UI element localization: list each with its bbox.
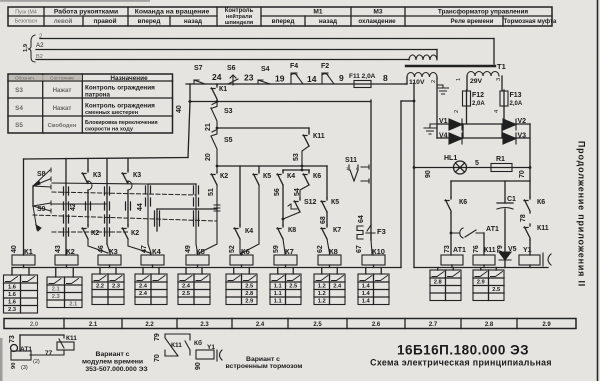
svg-text:90: 90 — [195, 362, 202, 370]
svg-text:2.1: 2.1 — [89, 322, 98, 328]
svg-text:встроенным тормозом: встроенным тормозом — [226, 363, 303, 370]
svg-text:16Б16П.180.000 ЭЗ: 16Б16П.180.000 ЭЗ — [397, 343, 529, 358]
svg-text:2.2: 2.2 — [96, 284, 104, 290]
svg-text:9: 9 — [339, 73, 344, 83]
svg-text:2.1: 2.1 — [69, 302, 78, 308]
svg-text:353-507.000.000 ЭЗ: 353-507.000.000 ЭЗ — [85, 366, 147, 373]
clutch armature symbol — [543, 253, 551, 266]
svg-text:2.5: 2.5 — [289, 284, 298, 290]
svg-text:42: 42 — [70, 203, 77, 211]
relay coil K8 — [318, 255, 341, 265]
svg-text:2.8: 2.8 — [485, 322, 494, 328]
svg-text:90: 90 — [425, 170, 432, 178]
coil K10 bottom pin — [373, 265, 375, 268]
svg-text:Безопасн: Безопасн — [15, 19, 38, 25]
svg-text:К11: К11 — [171, 342, 182, 349]
svg-text:1.6: 1.6 — [8, 300, 17, 306]
wire bridge right vertical — [529, 124, 531, 181]
svg-text:Обознач.: Обознач. — [15, 76, 35, 82]
wire to Y1 — [529, 240, 531, 255]
svg-text:19: 19 — [275, 74, 285, 84]
svg-text:21: 21 — [205, 123, 212, 131]
svg-text:70: 70 — [519, 170, 526, 178]
svg-text:46: 46 — [98, 245, 105, 253]
svg-text:HL1: HL1 — [444, 155, 457, 162]
contact K5 (b) — [326, 166, 328, 198]
S1 cam block: vertical to K4 coil — [148, 184, 151, 255]
coil K8 bottom pin — [329, 265, 331, 268]
wire S8 throw row (solid, hopped) — [52, 183, 148, 184]
svg-text:К3: К3 — [93, 172, 101, 179]
svg-text:(3): (3) — [21, 365, 28, 371]
svg-text:S3: S3 — [224, 108, 233, 115]
svg-text:F11 2,0А: F11 2,0А — [349, 73, 376, 80]
svg-text:5: 5 — [475, 160, 479, 167]
svg-text:назад: назад — [184, 18, 202, 25]
svg-text:73: 73 — [444, 245, 451, 253]
svg-text:90: 90 — [11, 363, 17, 369]
svg-text:2.5: 2.5 — [182, 291, 191, 297]
wire 29V right pin — [501, 76, 503, 90]
wire 53 split — [283, 169, 309, 171]
contact K6 (variant2) — [185, 334, 190, 355]
contact cross-reference table K3 — [92, 274, 124, 305]
svg-text:Контроль ограждения: Контроль ограждения — [85, 85, 155, 92]
table K7 pins — [277, 268, 279, 275]
svg-text:S4: S4 — [15, 105, 23, 112]
svg-text:2.3: 2.3 — [8, 307, 17, 313]
svg-text:V4: V4 — [439, 133, 448, 140]
svg-text:70: 70 — [154, 354, 161, 362]
svg-text:79: 79 — [497, 245, 504, 253]
svg-text:C1: C1 — [507, 196, 516, 203]
svg-text:67: 67 — [356, 245, 363, 253]
svg-text:Кб: Кб — [194, 339, 202, 347]
svg-text:вперед: вперед — [138, 18, 161, 25]
svg-text:М3: М3 — [373, 9, 382, 16]
coil K6 top pin wire — [240, 253, 243, 255]
svg-text:V1: V1 — [439, 118, 448, 125]
table K6 pins — [233, 268, 235, 275]
table K4 pins — [142, 268, 144, 275]
contact cross-reference table AT1 — [430, 270, 461, 301]
wire S11 branch vertical — [370, 100, 372, 240]
wire rail 40 — [189, 101, 371, 103]
svg-text:К11: К11 — [484, 247, 496, 254]
svg-text:К8: К8 — [329, 247, 338, 256]
svg-text:К11: К11 — [66, 335, 77, 342]
svg-text:К2: К2 — [91, 230, 99, 237]
rectifier left vertical node 90 — [413, 83, 415, 268]
table K1 pins — [11, 268, 13, 276]
svg-text:2.9: 2.9 — [477, 280, 486, 286]
table K3 pins — [99, 268, 101, 275]
svg-text:2.4: 2.4 — [256, 322, 265, 328]
contact cross-reference table K5 — [178, 274, 210, 305]
relay coil K10 — [362, 255, 385, 265]
right border line — [597, 0, 599, 381]
svg-text:S12: S12 — [304, 199, 317, 206]
svg-text:2.6: 2.6 — [372, 322, 381, 328]
svg-text:1,9: 1,9 — [23, 43, 29, 52]
wire grid vertical 66 — [65, 159, 67, 256]
capacitor C1 — [497, 202, 513, 204]
coil K7 bottom pin — [285, 265, 287, 268]
svg-text:2.5: 2.5 — [313, 322, 322, 328]
svg-text:F12: F12 — [472, 92, 484, 99]
svg-text:1: 1 — [456, 78, 462, 81]
wire bridge top — [437, 123, 530, 125]
wire left vertical to K1 coil — [23, 159, 25, 255]
svg-text:40: 40 — [11, 245, 18, 253]
svg-text:К2: К2 — [66, 247, 75, 256]
wire node 53 — [302, 146, 309, 170]
svg-text:2.4: 2.4 — [139, 291, 148, 297]
wire rail to 110V winding — [405, 83, 407, 85]
wire 29V left pin — [466, 76, 468, 90]
contact K2 (c) main — [211, 171, 217, 185]
wire K8 to K7 coil — [283, 239, 285, 255]
wire grid vertical 107 — [106, 159, 108, 245]
svg-text:2.4: 2.4 — [139, 284, 148, 290]
contact K3 (b) — [127, 159, 129, 171]
svg-text:К6: К6 — [537, 199, 545, 206]
svg-text:56: 56 — [274, 188, 281, 196]
svg-text:3: 3 — [496, 78, 502, 81]
relay coil K1 — [12, 255, 35, 265]
relay coil K4 — [141, 255, 164, 265]
coil K10 top pin wire — [373, 254, 375, 256]
svg-text:78: 78 — [520, 214, 527, 222]
contact cross-reference table K6 — [226, 274, 257, 305]
svg-text:V3: V3 — [518, 133, 527, 140]
contact cross-reference table K10 — [358, 274, 389, 305]
relay coil K7 — [274, 255, 297, 265]
relay coil K6 — [230, 255, 253, 265]
svg-text:К5: К5 — [196, 247, 205, 256]
svg-text:К4: К4 — [245, 228, 253, 235]
svg-text:47: 47 — [141, 245, 148, 253]
coil K2 top pin — [65, 254, 68, 256]
wire K4b to K6 coil — [240, 239, 241, 255]
svg-text:Трансформатор управления: Трансформатор управления — [438, 9, 529, 16]
contact K11 (variant2) — [165, 334, 190, 356]
wire variant1 bottom — [30, 350, 64, 355]
svg-text:Блокировка переключения: Блокировка переключения — [85, 120, 158, 126]
wire variant1 top — [20, 334, 64, 336]
ground at bridge left — [424, 124, 437, 134]
fuse F11 — [354, 81, 371, 88]
svg-text:77: 77 — [45, 350, 53, 357]
contact K11 (variant1) — [59, 335, 64, 348]
S1 cam block: line A — [148, 183, 196, 185]
coil Y1 bottom pin — [529, 265, 531, 268]
svg-text:К5: К5 — [263, 173, 271, 180]
svg-text:Тормозная муфта: Тормозная муфта — [504, 18, 557, 25]
breaker F2 — [322, 73, 334, 84]
svg-text:V5: V5 — [508, 246, 517, 253]
wire node 21 line — [217, 127, 309, 129]
table K5 pins — [185, 268, 187, 275]
svg-text:8: 8 — [383, 73, 388, 83]
contact cross-reference table K2 — [47, 277, 82, 308]
svg-text:51: 51 — [208, 188, 215, 196]
wire node 20 line — [217, 165, 327, 167]
svg-text:патрона: патрона — [85, 92, 111, 99]
resistor R1 — [491, 164, 512, 172]
svg-text:К1: К1 — [24, 247, 33, 256]
svg-text:2.7: 2.7 — [429, 322, 438, 328]
svg-text:V2: V2 — [518, 118, 527, 125]
svg-text:К7: К7 — [333, 227, 341, 234]
S1 cam block: vertical x157 — [156, 209, 158, 231]
svg-text:F13: F13 — [510, 92, 522, 99]
contact K3 (a) — [87, 159, 89, 171]
svg-text:Схема электрическая принципи: Схема электрическая принципиальная — [370, 358, 552, 368]
svg-text:2.2: 2.2 — [145, 322, 154, 328]
svg-text:T1: T1 — [497, 62, 506, 71]
ground under 110V winding — [437, 85, 449, 94]
coil K5 bottom pin — [197, 265, 199, 268]
svg-text:2.8: 2.8 — [245, 291, 254, 297]
svg-text:S3: S3 — [15, 87, 23, 94]
coil K3 bottom pin — [109, 265, 111, 268]
diode V4 — [449, 133, 462, 144]
svg-text:49: 49 — [185, 245, 192, 253]
svg-text:2.4: 2.4 — [182, 284, 191, 290]
svg-text:К6: К6 — [459, 199, 467, 206]
svg-text:2.4: 2.4 — [333, 284, 342, 290]
svg-text:К5: К5 — [331, 199, 339, 206]
transformer T1 core — [406, 65, 495, 67]
wire bottom rail main — [12, 267, 401, 269]
svg-text:F3: F3 — [377, 227, 386, 236]
S1 cam block: line B — [157, 208, 217, 210]
svg-text:20: 20 — [205, 153, 212, 161]
wire 110V right pin — [436, 77, 438, 138]
svg-text:1.4: 1.4 — [362, 299, 371, 305]
relay coil K11 — [473, 255, 495, 265]
svg-text:2.9: 2.9 — [245, 299, 254, 305]
coil K11 (variant1) — [57, 342, 74, 350]
wire S9 throw row — [52, 203, 107, 205]
wire bus line 1 — [40, 38, 494, 40]
switch S5 — [211, 128, 217, 171]
svg-text:АТ1: АТ1 — [453, 247, 466, 254]
wire left drop of top rail — [189, 84, 191, 102]
wire K2c to K5 coil — [199, 185, 217, 255]
clutch symbol (variant2) — [217, 350, 222, 361]
svg-text:23: 23 — [244, 73, 254, 83]
svg-text:сменных шестерен: сменных шестерен — [85, 110, 138, 116]
contact K6 (a) — [308, 170, 310, 171]
svg-text:73: 73 — [9, 335, 16, 343]
svg-text:59: 59 — [273, 245, 280, 253]
svg-text:Реле времени: Реле времени — [451, 18, 494, 25]
fuse F12 — [466, 90, 468, 124]
svg-text:52: 52 — [229, 245, 236, 253]
svg-text:К1: К1 — [219, 86, 227, 93]
svg-text:S8: S8 — [37, 171, 46, 178]
wire C1 branch — [504, 181, 506, 203]
svg-text:Нажат: Нажат — [53, 87, 72, 94]
contact K8 — [282, 219, 284, 225]
contact cross-reference table K8 — [314, 274, 345, 305]
svg-text:АТ1: АТ1 — [486, 226, 499, 233]
relay coil K3 — [98, 255, 121, 265]
mechanical link lines (dashed) — [33, 192, 217, 232]
svg-text:2,0А: 2,0А — [472, 101, 485, 107]
svg-text:76: 76 — [473, 245, 480, 253]
wire lamp row node 90-70 — [414, 167, 530, 169]
svg-text:1.4: 1.4 — [362, 284, 371, 290]
thermal contact F3 — [357, 225, 375, 240]
coil K11 bottom pin — [483, 265, 485, 268]
svg-text:S4: S4 — [261, 66, 270, 73]
wire K6 right branch — [529, 181, 531, 197]
svg-text:F2: F2 — [321, 63, 329, 70]
wire K5a to K6 coil — [242, 185, 259, 255]
switch S7 — [194, 80, 205, 84]
svg-text:24: 24 — [212, 72, 222, 82]
svg-text:(2): (2) — [33, 359, 40, 365]
info table header — [9, 75, 82, 81]
svg-text:К11: К11 — [313, 133, 325, 140]
svg-text:62: 62 — [317, 245, 324, 253]
svg-text:скорости на ходу: скорости на ходу — [85, 127, 134, 133]
svg-text:Вариант с: Вариант с — [246, 356, 280, 363]
transformer T1 secondary 29V — [467, 72, 499, 77]
wire bottom rail right — [414, 267, 548, 269]
svg-text:Y1: Y1 — [523, 247, 532, 254]
breaker F4 — [291, 73, 303, 84]
svg-text:43: 43 — [55, 245, 62, 253]
wire to AT1 coil — [450, 213, 452, 255]
svg-text:Команда на вращение: Команда на вращение — [135, 9, 210, 16]
diode V5 — [499, 252, 511, 260]
svg-text:К3: К3 — [109, 247, 118, 256]
svg-text:29V: 29V — [470, 78, 483, 85]
svg-text:S11: S11 — [345, 157, 357, 164]
relay coil K2 — [55, 255, 78, 265]
svg-text:Назначение: Назначение — [110, 75, 148, 82]
svg-text:1.1: 1.1 — [274, 299, 283, 305]
svg-text:S5: S5 — [15, 122, 23, 129]
svg-text:2: 2 — [431, 80, 437, 83]
svg-text:1.1: 1.1 — [274, 291, 283, 297]
wire top chain rail — [186, 83, 405, 85]
svg-text:S7: S7 — [194, 65, 203, 72]
switch S6 — [228, 75, 238, 85]
table K11 pins — [480, 268, 482, 271]
svg-text:2.5: 2.5 — [245, 284, 254, 290]
svg-text:нейтрали: нейтрали — [226, 13, 253, 20]
contact K11 (top) — [308, 128, 310, 132]
wire node 40 top line — [24, 158, 189, 160]
svg-text:Свободен: Свободен — [48, 122, 77, 129]
svg-text:2.3: 2.3 — [200, 322, 209, 328]
transformer T1 secondary 110V — [407, 73, 437, 78]
svg-text:Нажат: Нажат — [53, 105, 72, 112]
contact cross-reference table K7 — [270, 274, 301, 305]
switch S4 — [258, 80, 270, 84]
contact cross-reference table K4 — [135, 274, 167, 305]
svg-text:64: 64 — [358, 215, 365, 223]
table K10 pins — [365, 268, 367, 275]
svg-text:S5: S5 — [224, 137, 233, 144]
coil K4 bottom pin — [152, 265, 154, 268]
wire bridge bottom — [437, 137, 530, 139]
wire bus line 2 — [36, 49, 437, 51]
switch S12 — [294, 198, 300, 212]
svg-text:К4: К4 — [152, 247, 162, 256]
svg-text:К8: К8 — [288, 227, 296, 234]
svg-text:14: 14 — [307, 74, 317, 84]
svg-text:К2: К2 — [220, 173, 228, 180]
svg-text:F4: F4 — [290, 63, 298, 70]
crossing hop a — [88, 181, 92, 190]
wire inner rail — [451, 180, 530, 182]
svg-text:1.1: 1.1 — [274, 284, 283, 290]
contact K1 — [211, 85, 217, 102]
contact K4 (a) — [282, 170, 284, 171]
svg-text:2.3: 2.3 — [112, 284, 121, 290]
svg-text:А2: А2 — [36, 42, 44, 49]
svg-text:К7: К7 — [285, 247, 294, 256]
svg-text:2.1: 2.1 — [52, 287, 61, 293]
svg-text:110V: 110V — [409, 79, 425, 86]
svg-text:40: 40 — [176, 105, 183, 113]
svg-text:2.5: 2.5 — [492, 287, 501, 293]
coil K6 bottom pin — [241, 265, 243, 268]
coil AT1 bottom pin — [451, 265, 453, 268]
table K8 pins — [321, 268, 323, 275]
svg-text:1.2: 1.2 — [318, 299, 326, 305]
svg-text:К4: К4 — [287, 173, 295, 180]
coil K1 top pin — [23, 254, 25, 256]
svg-text:модулем времени: модулем времени — [82, 359, 143, 366]
svg-text:1.6: 1.6 — [8, 285, 17, 291]
diode V1 — [449, 119, 462, 130]
svg-text:2.0: 2.0 — [30, 322, 39, 328]
wire S12 to junction — [283, 212, 300, 219]
top state table frame — [8, 7, 552, 26]
fuse F13 — [503, 90, 505, 124]
relay coil AT1 — [441, 255, 463, 265]
contact K5 (a) — [258, 166, 260, 171]
svg-text:44: 44 — [137, 203, 144, 211]
svg-text:К11: К11 — [537, 225, 549, 232]
svg-text:К2: К2 — [131, 230, 139, 237]
S1 cam block: vertical to K5 coil — [196, 184, 198, 255]
svg-text:шпинделя: шпинделя — [225, 20, 253, 26]
relay coil K5 — [186, 255, 209, 265]
contact K6 (left) — [445, 197, 451, 213]
contact K11 (right) — [524, 224, 530, 240]
brake clutch Y1 — [519, 255, 540, 265]
coil AT1 (variant1) — [11, 351, 31, 360]
wire S8/S9 stub — [32, 186, 34, 206]
svg-text:1.6: 1.6 — [8, 292, 17, 298]
wire vertical 187 — [188, 102, 190, 158]
coil K1 bottom pin — [23, 265, 25, 268]
svg-text:1.4: 1.4 — [362, 291, 371, 297]
svg-text:К6: К6 — [313, 173, 321, 180]
svg-text:79: 79 — [154, 333, 161, 341]
svg-text:охлаждение: охлаждение — [358, 18, 396, 25]
svg-text:правой: правой — [94, 17, 117, 25]
crossing hop b — [128, 181, 132, 190]
